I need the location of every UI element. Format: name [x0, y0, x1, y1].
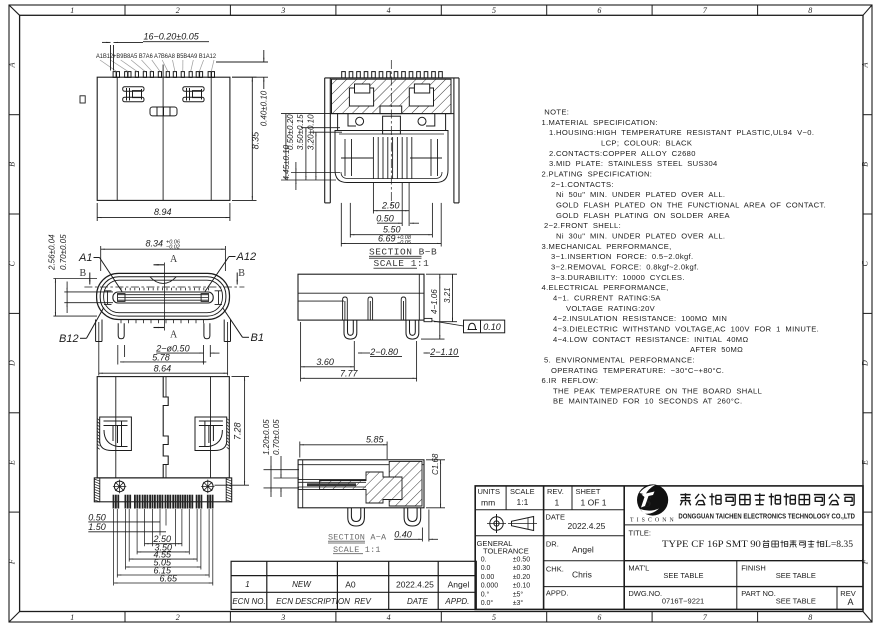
svg-text:GOLD FLASH PLATED ON THE FUNCT: GOLD FLASH PLATED ON THE FUNCTIONAL AREA… [556, 201, 826, 210]
svg-text:4−2.INSULATION RESISTANCE: 100: 4−2.INSULATION RESISTANCE: 100MΩ MIN [553, 314, 727, 323]
svg-text:APPD.: APPD. [546, 589, 569, 598]
svg-text:8.34: 8.34 [146, 239, 164, 249]
svg-text:±0.50: ±0.50 [513, 557, 531, 564]
comb teeth [341, 137, 442, 179]
svg-text:A: A [170, 254, 178, 265]
svg-text:1 OF 1: 1 OF 1 [581, 498, 607, 508]
svg-text:PART NO.: PART NO. [741, 589, 776, 598]
svg-text:5: 5 [492, 6, 496, 15]
svg-text:3−3.DURABILITY: 10000 CYCLES.: 3−3.DURABILITY: 10000 CYCLES. [551, 273, 685, 282]
svg-text:3: 3 [280, 6, 285, 15]
svg-text:Chris: Chris [572, 570, 592, 580]
svg-text:0.: 0. [481, 557, 487, 564]
top bump [150, 277, 176, 284]
svg-text:B: B [8, 162, 17, 167]
svg-text:B12: B12 [59, 333, 79, 345]
svg-text:8.64: 8.64 [154, 363, 172, 373]
svg-text:SCALE 1:1: SCALE 1:1 [374, 258, 430, 269]
svg-text:Ni 30u" MIN. UNDER PLATED OVER: Ni 30u" MIN. UNDER PLATED OVER ALL. [556, 232, 725, 241]
pins on top [342, 72, 443, 78]
svg-text:5: 5 [492, 613, 496, 622]
contact bars [343, 297, 406, 320]
svg-text:TISCONN: TISCONN [630, 518, 677, 524]
svg-text:2−2.FRONT SHELL:: 2−2.FRONT SHELL: [544, 221, 621, 230]
svg-text:3.60: 3.60 [316, 357, 334, 367]
svg-text:SEE TABLE: SEE TABLE [776, 597, 816, 606]
dim 3.60 / 7.77 [301, 322, 417, 382]
svg-text:8.35: 8.35 [251, 131, 261, 150]
tray [335, 131, 448, 183]
left dims 2.56 / 0.70 [53, 279, 113, 317]
svg-text:OPERATING TEMPERATURE: −30°C~+: OPERATING TEMPERATURE: −30°C~+80°C. [551, 366, 724, 375]
dim 0.40 [412, 510, 438, 542]
svg-text:4−4.LOW CONTACT RESISTANCE: IN: 4−4.LOW CONTACT RESISTANCE: INITIAL 40MΩ [553, 335, 749, 344]
svg-text:6.IR REFLOW:: 6.IR REFLOW: [542, 376, 599, 385]
svg-text:4−1.06: 4−1.06 [430, 289, 439, 314]
svg-text:TYPE CF 16P SMT 90: TYPE CF 16P SMT 90 [662, 540, 761, 550]
body [97, 377, 229, 478]
svg-text:DR.: DR. [546, 540, 559, 549]
svg-text:1.20±0.05: 1.20±0.05 [262, 419, 271, 455]
svg-text:LCP; COLOUR: BLACK: LCP; COLOUR: BLACK [601, 139, 692, 148]
logo [630, 484, 677, 523]
shell outlines [97, 273, 230, 319]
svg-text:UNITS: UNITS [478, 487, 501, 496]
svg-text:A: A [8, 62, 17, 68]
svg-text:0716T−9221: 0716T−9221 [662, 597, 704, 606]
svg-text:3.21: 3.21 [443, 287, 452, 303]
svg-text:3.MECHANICAL PERFORMANCE,: 3.MECHANICAL PERFORMANCE, [542, 242, 672, 251]
svg-text:±5°: ±5° [513, 590, 524, 598]
svg-text:3−1.INSERTION FORCE: 0.5~2.0kg: 3−1.INSERTION FORCE: 0.5~2.0kgf. [551, 252, 694, 261]
svg-text:VOLTAGE RATING:20V: VOLTAGE RATING:20V [566, 304, 656, 313]
svg-text:BE MAINTAINED FOR 10 SECONDS A: BE MAINTAINED FOR 10 SECONDS AT 260°C. [553, 397, 742, 406]
smt pins [113, 495, 214, 509]
dims 1.20 / 0.70 [264, 456, 300, 497]
legs [96, 320, 231, 342]
svg-text:E: E [861, 460, 870, 466]
svg-text:4.ELECTRICAL PERFORMANCE,: 4.ELECTRICAL PERFORMANCE, [542, 283, 669, 292]
dim 5.78 [120, 361, 206, 363]
tongue [113, 292, 213, 303]
svg-text:3.MID PLATE: STAINLESS STEEL S: 3.MID PLATE: STAINLESS STEEL SUS304 [549, 159, 718, 168]
dim extension verticals [114, 509, 213, 586]
svg-text:0.000: 0.000 [481, 583, 499, 590]
dash-dot centerline [84, 286, 244, 288]
svg-text:TITLE:: TITLE: [629, 528, 652, 537]
svg-text:DATE: DATE [407, 597, 428, 606]
svg-text:C1.68: C1.68 [431, 453, 440, 475]
svg-text:2.50: 2.50 [381, 201, 400, 211]
svg-text:1.50: 1.50 [88, 522, 106, 532]
svg-text:3.20±0.10: 3.20±0.10 [306, 114, 315, 150]
svg-text:−0.02: −0.02 [166, 245, 180, 251]
svg-text:B1: B1 [251, 332, 264, 344]
company names [680, 493, 854, 505]
svg-text:E: E [8, 460, 17, 466]
svg-text:D: D [8, 360, 17, 367]
svg-text:L=8.35: L=8.35 [825, 540, 853, 550]
svg-text:Ni 50u" MIN. UNDER PLATED OVER: Ni 50u" MIN. UNDER PLATED OVER ALL. [556, 190, 725, 199]
tongue plates [298, 480, 366, 490]
shell sides [325, 78, 459, 203]
svg-text:DATE: DATE [546, 513, 565, 522]
svg-text:ECN DESCRIPTION: ECN DESCRIPTION [276, 597, 350, 606]
svg-text:6: 6 [597, 6, 601, 15]
svg-text:1.MATERIAL SPECIFICATION:: 1.MATERIAL SPECIFICATION: [542, 118, 658, 127]
svg-text:2: 2 [176, 6, 180, 15]
svg-text:A12: A12 [236, 251, 257, 263]
body [298, 460, 424, 508]
latch clip right [195, 417, 227, 451]
svg-text:NOTE:: NOTE: [544, 108, 569, 117]
svg-text:SEE TABLE: SEE TABLE [776, 571, 816, 580]
svg-text:3.50±0.15: 3.50±0.15 [296, 114, 305, 150]
position symbols [113, 480, 215, 494]
dim 4-1.06 and 3.21 [421, 274, 457, 339]
svg-text:1.HOUSING:HIGH TEMPERATURE RES: 1.HOUSING:HIGH TEMPERATURE RESISTANT PLA… [549, 128, 814, 137]
svg-text:4−1. CURRENT RATING:5A: 4−1. CURRENT RATING:5A [553, 293, 661, 302]
svg-text:1: 1 [245, 580, 249, 589]
latch right [183, 87, 204, 102]
svg-text:SEE TABLE: SEE TABLE [663, 571, 703, 580]
left dims 4.45 etc [281, 114, 342, 190]
svg-text:0.70±0.05: 0.70±0.05 [59, 234, 68, 270]
dims left-aligned 0.50/1.50 [88, 522, 166, 532]
section A-A cut line [154, 263, 165, 331]
svg-text:B: B [238, 268, 245, 279]
body [80, 65, 230, 201]
svg-text:DONGGUAN TAICHEN ELECTRONICS T: DONGGUAN TAICHEN ELECTRONICS TECHNOLOGY … [678, 511, 855, 520]
dim C1.68 [426, 460, 445, 508]
svg-text:0.0°: 0.0° [481, 599, 494, 607]
svg-text:7.28: 7.28 [233, 422, 243, 440]
svg-text:APPD.: APPD. [444, 597, 469, 606]
tolerance values [481, 557, 531, 608]
svg-text:4: 4 [387, 6, 391, 15]
svg-text:0.40: 0.40 [394, 530, 412, 540]
svg-text:SHEET: SHEET [576, 487, 601, 496]
dim 8.35 [232, 77, 257, 200]
svg-text:±0.30: ±0.30 [513, 565, 531, 572]
svg-text:B: B [861, 162, 870, 167]
dim 2-0.80 / 2-1.10 [358, 353, 459, 356]
svg-text:2−1.10: 2−1.10 [429, 347, 458, 357]
svg-text:C: C [8, 260, 17, 266]
svg-text:3: 3 [280, 613, 285, 622]
svg-text:AFTER 50MΩ: AFTER 50MΩ [690, 345, 743, 354]
svg-text:8: 8 [808, 613, 812, 622]
svg-text:A: A [170, 330, 178, 341]
svg-text:1:1: 1:1 [517, 497, 529, 507]
centerline [390, 60, 392, 208]
svg-text:0.10: 0.10 [483, 322, 501, 332]
notes block [542, 108, 827, 406]
latch left [123, 87, 144, 102]
svg-text:FINISH: FINISH [741, 564, 766, 573]
svg-text:2−0.80: 2−0.80 [369, 347, 398, 357]
dim 8.94 [97, 203, 230, 221]
svg-text:8.94: 8.94 [154, 207, 172, 217]
hatched nose [389, 461, 422, 506]
svg-text:A1B12+B9B8A5 B7A6 A7B6A8 B5B4A: A1B12+B9B8A5 B7A6 A7B6A8 B5B4A9 B1A12 [96, 53, 217, 60]
svg-text:3−2.REMOVAL FORCE: 0.8kgf~2.0k: 3−2.REMOVAL FORCE: 0.8kgf~2.0kgf. [551, 262, 699, 271]
svg-text:SECTION B−B: SECTION B−B [369, 247, 437, 258]
svg-text:0.50: 0.50 [88, 512, 106, 522]
svg-text:2022.4.25: 2022.4.25 [568, 521, 606, 531]
dim 8.64 [99, 322, 228, 376]
svg-text:6: 6 [597, 613, 601, 622]
svg-text:5.85: 5.85 [366, 435, 385, 445]
tick rows [121, 288, 208, 323]
svg-text:MAT'L: MAT'L [628, 564, 649, 573]
pins [113, 72, 214, 78]
svg-text:NEW: NEW [292, 580, 312, 589]
svg-text:CHK.: CHK. [546, 565, 564, 574]
side spring boxes [104, 291, 222, 305]
svg-text:0.°: 0.° [481, 590, 490, 598]
latch clip left [100, 417, 132, 451]
svg-text:DWG.NO.: DWG.NO. [628, 589, 662, 598]
svg-text:SCALE: SCALE [510, 487, 535, 496]
dim 8.34 [101, 246, 226, 271]
svg-text:A1: A1 [78, 252, 92, 264]
bottom dims [341, 183, 441, 247]
svg-text:2.56±0.04: 2.56±0.04 [48, 234, 57, 271]
svg-text:16−0.20±0.05: 16−0.20±0.05 [144, 32, 200, 42]
svg-text:REV: REV [354, 597, 371, 606]
hatched top block [332, 79, 452, 113]
flatness callout [432, 321, 464, 326]
dim 16-0.20 [102, 42, 209, 71]
svg-text:0.0: 0.0 [481, 565, 491, 572]
svg-text:Angel: Angel [572, 545, 594, 555]
centered dims [114, 544, 213, 583]
svg-text:THE PEAK TEMPERATURE ON THE BO: THE PEAK TEMPERATURE ON THE BOARD SHALL [553, 386, 762, 395]
svg-text:A: A [848, 597, 854, 607]
svg-text:4: 4 [387, 613, 391, 622]
svg-text:GOLD FLASH PLATING ON SOLDER A: GOLD FLASH PLATING ON SOLDER AREA [556, 211, 730, 220]
svg-text:A: A [861, 62, 870, 68]
center feature [150, 107, 177, 116]
dim 0.40±0.10 [216, 50, 268, 89]
svg-text:0.70±0.05: 0.70±0.05 [272, 419, 281, 455]
svg-text:0.40±0.10: 0.40±0.10 [260, 90, 269, 126]
center seam [163, 377, 168, 478]
svg-text:2022.4.25: 2022.4.25 [396, 580, 434, 590]
svg-text:6.69: 6.69 [378, 234, 396, 244]
gray pin labels + leaders [96, 53, 217, 71]
svg-text:B: B [80, 268, 87, 279]
svg-text:1: 1 [70, 6, 74, 15]
svg-text:0.50±0.20: 0.50±0.20 [286, 114, 295, 150]
svg-text:A0: A0 [345, 580, 356, 590]
svg-text:1: 1 [555, 498, 560, 508]
middle hatched tongue support [320, 472, 402, 503]
svg-text:0.00: 0.00 [481, 574, 495, 581]
tail tab [424, 318, 432, 321]
projection symbols [487, 514, 537, 533]
svg-text:REV.: REV. [547, 487, 564, 496]
svg-text:C: C [861, 260, 870, 266]
middle structure [330, 114, 454, 183]
svg-text:5.78: 5.78 [152, 352, 170, 362]
svg-text:0.50: 0.50 [376, 214, 394, 224]
svg-text:±0.10: ±0.10 [513, 583, 531, 590]
svg-text:6.65: 6.65 [160, 574, 179, 584]
bottom band [94, 478, 231, 502]
legs [344, 320, 419, 339]
svg-text:1: 1 [70, 613, 74, 622]
dim 5.85 [300, 442, 387, 460]
dim 2-Ø0.50 [118, 345, 220, 365]
svg-text:2−1.CONTACTS:: 2−1.CONTACTS: [551, 180, 614, 189]
svg-text:D: D [861, 360, 870, 367]
svg-text:4−3.DIELECTRIC WITHSTAND VOLTA: 4−3.DIELECTRIC WITHSTAND VOLTAGE,AC 100V… [553, 324, 819, 333]
svg-text:Angel: Angel [448, 580, 470, 590]
dim 7.28 [215, 377, 250, 486]
svg-text:−0.05: −0.05 [397, 240, 412, 246]
svg-text:2: 2 [176, 613, 180, 622]
legs [348, 508, 421, 526]
svg-text:F: F [8, 559, 17, 565]
svg-text:ECN NO.: ECN NO. [232, 597, 265, 606]
svg-text:2.CONTACTS:COPPER ALLOY C2680: 2.CONTACTS:COPPER ALLOY C2680 [549, 149, 696, 158]
svg-text:5. ENVIRONMENTAL PERFORMANCE:: 5. ENVIRONMENTAL PERFORMANCE: [544, 355, 695, 364]
svg-text:mm: mm [481, 498, 495, 508]
svg-text:TOLERANCE: TOLERANCE [483, 547, 529, 556]
svg-text:±0.20: ±0.20 [513, 574, 531, 581]
svg-text:±3°: ±3° [513, 599, 524, 607]
svg-text:2.PLATING SPECIFICATION:: 2.PLATING SPECIFICATION: [542, 170, 653, 179]
svg-text:8: 8 [808, 6, 812, 15]
svg-text:7.77: 7.77 [340, 369, 359, 379]
